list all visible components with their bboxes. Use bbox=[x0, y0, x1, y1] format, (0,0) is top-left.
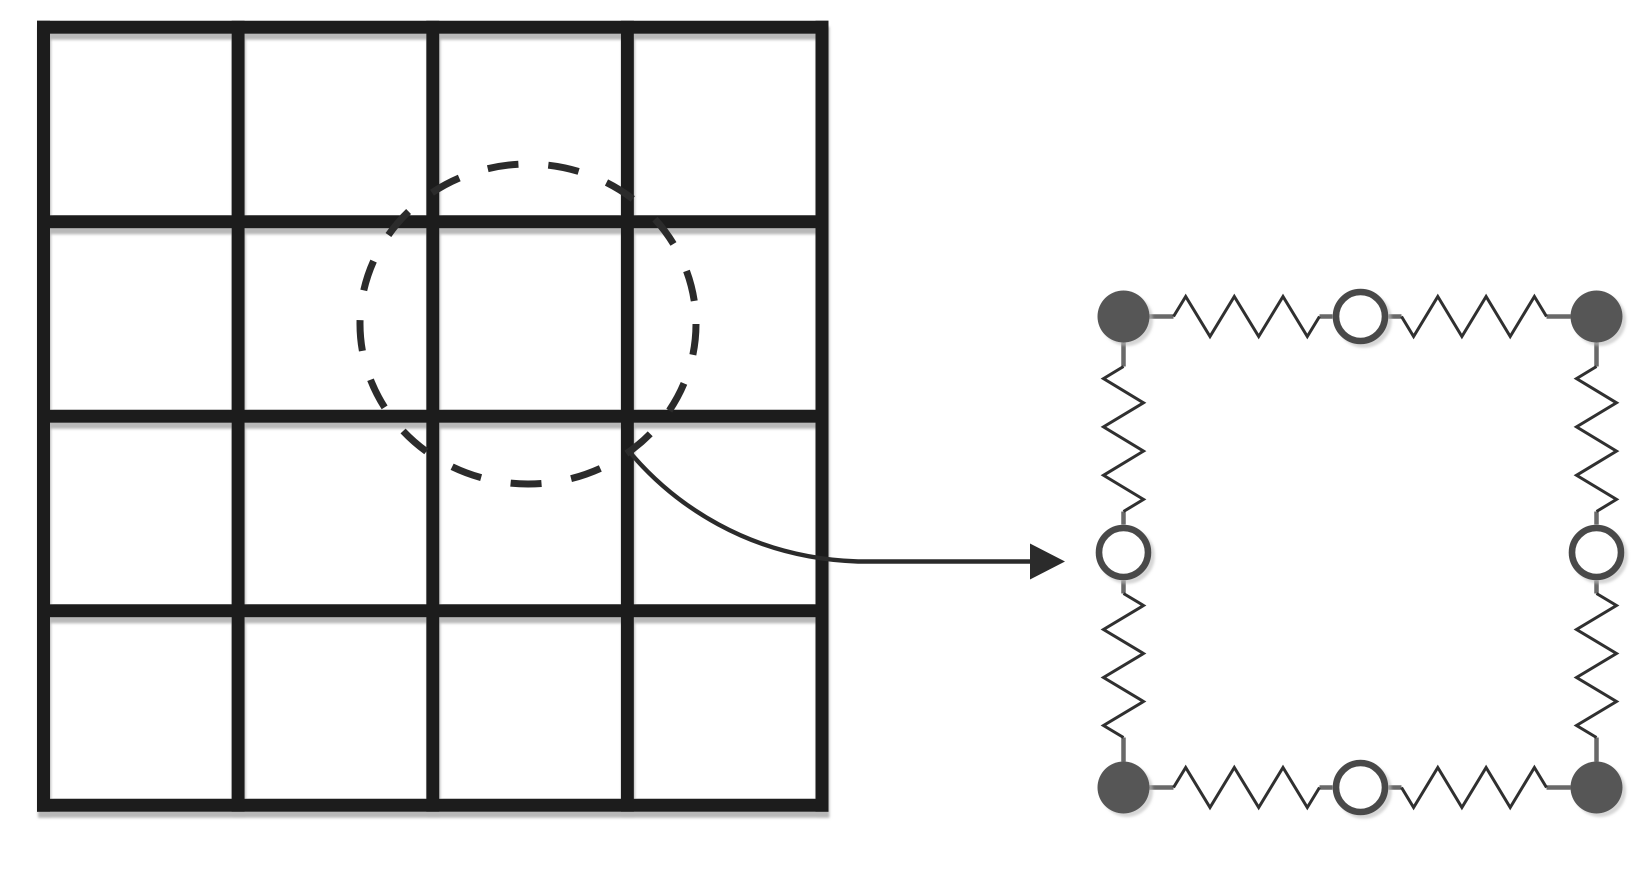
wire lead S6a bbox=[1121, 738, 1126, 762]
wire lead S1a bbox=[1150, 314, 1174, 319]
node N1 (top midpoint) bbox=[1336, 292, 1385, 341]
wire lead S8b bbox=[1594, 581, 1599, 594]
node mass M3 (bottom-left corner) bbox=[1098, 762, 1150, 814]
spring S3 (bottom-left) bbox=[1174, 768, 1320, 808]
wire lead S4a bbox=[1547, 785, 1571, 790]
wire lead S5b bbox=[1121, 512, 1126, 525]
node N3 (right midpoint) bbox=[1572, 528, 1621, 577]
dashed highlight circle bbox=[360, 164, 696, 484]
grid vertical line V1 bbox=[232, 21, 245, 812]
wire lead S1b bbox=[1320, 314, 1333, 319]
grid horizontal line H1 bbox=[37, 215, 829, 228]
spring S7 (right-upper) bbox=[1577, 367, 1617, 512]
mesh grid (4x4 finite element grid) bbox=[37, 21, 829, 812]
wire lead S5a bbox=[1121, 343, 1126, 367]
spring network square bbox=[1098, 291, 1623, 814]
grid vertical line V4 (right border) bbox=[816, 21, 829, 812]
grid horizontal line H0 (top border) bbox=[37, 21, 829, 34]
node N2 (left midpoint) bbox=[1099, 528, 1148, 577]
wire lead S6b bbox=[1121, 581, 1126, 594]
grid vertical line V0 (left border) bbox=[37, 21, 50, 812]
node mass M1 (top-left corner) bbox=[1098, 291, 1150, 343]
node mass M2 (top-right corner) bbox=[1571, 291, 1623, 343]
wire lead S7b bbox=[1594, 512, 1599, 525]
grid vertical line V2 bbox=[426, 21, 439, 812]
wire lead S4b bbox=[1389, 785, 1402, 790]
grid horizontal line H4 (bottom border) bbox=[37, 799, 829, 812]
wire lead S3b bbox=[1320, 785, 1333, 790]
node N4 (bottom midpoint) bbox=[1336, 763, 1385, 812]
wire lead S2b bbox=[1389, 314, 1402, 319]
grid horizontal line H2 bbox=[37, 410, 829, 423]
wire lead S8a bbox=[1594, 738, 1599, 762]
spring S8 (right-lower) bbox=[1577, 594, 1617, 738]
spring S6 (left-lower) bbox=[1104, 594, 1144, 738]
wire lead S2a bbox=[1547, 314, 1571, 319]
spring S4 (bottom-right) bbox=[1402, 768, 1547, 808]
spring S2 (top-right) bbox=[1402, 297, 1547, 337]
grid vertical line V3 bbox=[621, 21, 634, 812]
wire lead S7a bbox=[1594, 343, 1599, 367]
arrow from grid cell to spring model bbox=[628, 450, 1065, 580]
wire lead S3a bbox=[1150, 785, 1174, 790]
grid horizontal line H3 bbox=[37, 604, 829, 617]
spring S1 (top-left) bbox=[1174, 297, 1320, 337]
node mass M4 (bottom-right corner) bbox=[1571, 762, 1623, 814]
spring S5 (left-upper) bbox=[1104, 367, 1144, 512]
